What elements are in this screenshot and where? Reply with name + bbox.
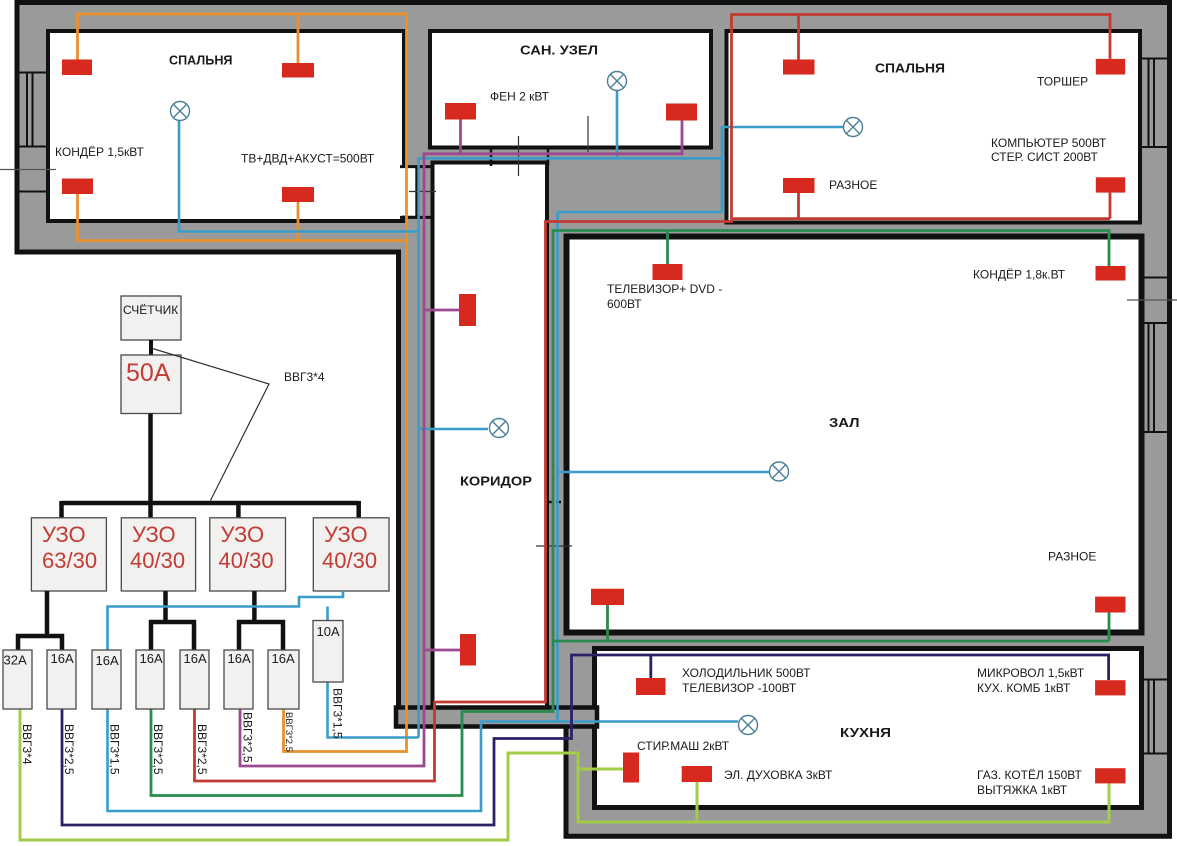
wire: dark-blue kitchen socket circuit bbox=[62, 655, 1109, 825]
svg-text:16А: 16А bbox=[51, 651, 74, 666]
svg-text:ТЕЛЕВИЗОР+ DVD -: ТЕЛЕВИЗОР+ DVD - bbox=[607, 282, 722, 296]
svg-text:КОНДЁР 1,8к.ВТ: КОНДЁР 1,8к.ВТ bbox=[973, 268, 1066, 282]
breaker 16А no.5 box bbox=[224, 650, 253, 709]
wire: bus drop to УЗО3 bbox=[236, 501, 241, 519]
breaker 16А no.4 box bbox=[180, 650, 209, 709]
svg-text:ЗАЛ: ЗАЛ bbox=[829, 415, 860, 430]
lamp: corridor ceiling light bbox=[490, 419, 509, 438]
svg-text:САН. УЗЕЛ: САН. УЗЕЛ bbox=[520, 43, 598, 58]
door: bedroom1-corridor opening bbox=[400, 165, 431, 219]
svg-text:РАЗНОЕ: РАЗНОЕ bbox=[1048, 550, 1096, 564]
outlet: bathroom right bbox=[666, 104, 697, 121]
dimension line: corridor right gap bbox=[536, 545, 572, 547]
svg-text:СТЕР. СИСТ 200ВТ: СТЕР. СИСТ 200ВТ bbox=[991, 150, 1098, 164]
wire: УЗО1 to breakers 32А/16А bbox=[18, 591, 62, 650]
svg-text:РАЗНОЕ: РАЗНОЕ bbox=[829, 178, 877, 192]
wire: purple bathroom+corridor socket circuit bbox=[240, 120, 682, 767]
dimension tick: bathroom bottom wall bbox=[518, 136, 520, 176]
outlet: kitchen ЭЛ.ДУХОВКА bbox=[682, 766, 712, 782]
outlet: bedroom1 bottom-left bbox=[62, 179, 93, 195]
outlet: hall РАЗНОЕ bottom-right bbox=[1095, 597, 1125, 613]
outlet: kitchen ХОЛОДИЛЬНИК bbox=[636, 678, 666, 695]
wall: corridor bottom chunk bbox=[396, 708, 597, 727]
outlet: kitchen СТИР.МАШ bbox=[623, 753, 639, 783]
svg-text:16А: 16А bbox=[228, 651, 251, 666]
svg-text:10А: 10А bbox=[317, 624, 340, 639]
svg-text:ТОРШЕР: ТОРШЕР bbox=[1037, 75, 1088, 89]
outlet: bedroom1 top-right bbox=[282, 63, 314, 78]
svg-text:ВЫТЯЖКА 1кВТ: ВЫТЯЖКА 1кВТ bbox=[977, 783, 1068, 797]
RCD УЗО 40/30 no.4 box bbox=[313, 518, 389, 591]
dimension tick: bathroom wall dash bbox=[490, 146, 493, 166]
wire: distribution bus bbox=[62, 501, 359, 506]
dimension tick: bathroom bottom wall 2 bbox=[587, 116, 589, 152]
outlet: bedroom2 РАЗНОЕ bbox=[783, 178, 815, 193]
breaker 32А box bbox=[3, 650, 32, 709]
outlet: kitchen ГАЗ.КОТЁЛ bbox=[1095, 768, 1125, 783]
room: bedroom2 interior bbox=[727, 31, 1141, 223]
room: bedroom1 interior bbox=[48, 31, 404, 221]
svg-text:32А: 32А bbox=[4, 653, 27, 668]
svg-text:КОРИДОР: КОРИДОР bbox=[460, 474, 532, 489]
meter СЧЁТЧИК box bbox=[121, 296, 181, 340]
lamp: hall ceiling light bbox=[770, 462, 789, 481]
lamp: bathroom ceiling light bbox=[608, 72, 627, 91]
breaker 50А box bbox=[121, 355, 181, 414]
svg-text:КУХ. КОМБ 1кВТ: КУХ. КОМБ 1кВТ bbox=[977, 681, 1071, 695]
outlet: corridor lower bbox=[460, 634, 476, 666]
svg-text:ТЕЛЕВИЗОР -100ВТ: ТЕЛЕВИЗОР -100ВТ bbox=[682, 681, 797, 695]
svg-text:ЭЛ. ДУХОВКА 3кВТ: ЭЛ. ДУХОВКА 3кВТ bbox=[724, 768, 833, 782]
RCD УЗО 40/30 no.2 box bbox=[121, 518, 195, 591]
outlet: bedroom2 bottom-right bbox=[1096, 177, 1125, 192]
wire: light-blue lighting circuit bbox=[108, 91, 844, 811]
window: left wall of bedroom1 bbox=[17, 73, 48, 192]
breaker 10А box bbox=[313, 621, 343, 683]
wire: orange bedroom1 socket circuit bbox=[78, 14, 407, 752]
svg-text:16А: 16А bbox=[96, 653, 119, 668]
svg-text:ВВГ3*4: ВВГ3*4 bbox=[20, 724, 34, 765]
outlet: bedroom2 top-left bbox=[783, 60, 815, 75]
room: corridor interior bbox=[433, 163, 548, 710]
dimension line: left of bedroom1 bbox=[0, 169, 56, 171]
svg-text:КОМПЬЮТЕР 500ВТ: КОМПЬЮТЕР 500ВТ bbox=[991, 136, 1107, 150]
outlet: bedroom1 КОНДЁР top-left bbox=[62, 60, 92, 76]
callout: ВВГ3*4 main cable bbox=[153, 349, 270, 501]
lamp: bedroom2 ceiling light bbox=[844, 118, 863, 137]
svg-text:ВВГ3*4: ВВГ3*4 bbox=[284, 370, 325, 384]
wire: bus drop to УЗО4 bbox=[356, 501, 361, 519]
outlet: kitchen МИКРОВОЛ bbox=[1095, 680, 1125, 695]
RCD УЗО 40/30 no.3 box bbox=[210, 518, 286, 591]
svg-text:ВВГ3*2,5: ВВГ3*2,5 bbox=[241, 712, 255, 763]
svg-text:50А: 50А bbox=[126, 359, 171, 387]
wire: main breaker to bus bbox=[148, 414, 153, 520]
window: right wall beside bedroom2 bbox=[1142, 59, 1169, 278]
dimension line: right wall beside hall bbox=[1127, 299, 1177, 301]
svg-text:УЗО: УЗО bbox=[132, 522, 176, 547]
wire: meter to main breaker bbox=[149, 340, 153, 356]
svg-text:ВВГ3*2,5: ВВГ3*2,5 bbox=[283, 712, 294, 752]
svg-text:40/30: 40/30 bbox=[219, 548, 274, 573]
svg-text:ВВГ3*2,5: ВВГ3*2,5 bbox=[195, 724, 209, 775]
svg-text:КОНДЁР 1,5кВТ: КОНДЁР 1,5кВТ bbox=[55, 145, 144, 159]
svg-text:УЗО: УЗО bbox=[324, 522, 368, 547]
svg-text:40/30: 40/30 bbox=[130, 548, 185, 573]
svg-text:СЧЁТЧИК: СЧЁТЧИК bbox=[123, 303, 178, 317]
svg-text:ТВ+ДВД+АКУСТ=500ВТ: ТВ+ДВД+АКУСТ=500ВТ bbox=[241, 152, 375, 166]
svg-text:ВВГ3*2,5: ВВГ3*2,5 bbox=[62, 724, 76, 775]
svg-text:ВВГ3*2,5: ВВГ3*2,5 bbox=[151, 724, 165, 775]
svg-text:ФЕН 2 кВТ: ФЕН 2 кВТ bbox=[490, 90, 550, 104]
outlet: bedroom1 ТВ bottom-right bbox=[282, 187, 314, 202]
svg-text:16А: 16А bbox=[272, 651, 295, 666]
svg-text:СПАЛЬНЯ: СПАЛЬНЯ bbox=[875, 61, 945, 76]
room: hall (ЗАЛ) interior bbox=[567, 237, 1142, 633]
svg-text:КУХНЯ: КУХНЯ bbox=[840, 725, 891, 740]
svg-text:ХОЛОДИЛЬНИК 500ВТ: ХОЛОДИЛЬНИК 500ВТ bbox=[682, 666, 811, 680]
outlet: bedroom2 ТОРШЕР bbox=[1096, 59, 1125, 75]
wire: lime stove/boiler circuit bbox=[20, 709, 1109, 840]
svg-text:УЗО: УЗО bbox=[42, 522, 86, 547]
svg-text:40/30: 40/30 bbox=[322, 548, 377, 573]
breaker 16А no.3 box bbox=[136, 650, 164, 709]
window: right wall beside hall bbox=[1142, 323, 1169, 432]
outlet: hall КОНДЁР 1,8 bbox=[1096, 266, 1126, 281]
svg-text:63/30: 63/30 bbox=[42, 548, 97, 573]
svg-text:16А: 16А bbox=[140, 651, 163, 666]
outlet: hall ТЕЛЕВИЗОР bbox=[653, 264, 683, 280]
outlet: corridor upper bbox=[459, 294, 476, 326]
svg-text:МИКРОВОЛ 1,5кВТ: МИКРОВОЛ 1,5кВТ bbox=[977, 666, 1085, 680]
wire: green hall socket circuit bbox=[151, 231, 1109, 796]
wire: УЗО3 to breakers bbox=[239, 591, 283, 650]
RCD УЗО 63/30 box bbox=[31, 518, 106, 591]
svg-text:ВВГ3*1,5: ВВГ3*1,5 bbox=[331, 688, 345, 739]
svg-text:СПАЛЬНЯ: СПАЛЬНЯ bbox=[169, 53, 233, 68]
outlet: bathroom ФЕН left bbox=[445, 103, 476, 120]
dimension tick: corridor left wall bbox=[409, 191, 436, 193]
room: kitchen interior bbox=[595, 649, 1142, 808]
svg-text:УЗО: УЗО bbox=[221, 522, 265, 547]
room: bathroom interior bbox=[430, 31, 711, 148]
svg-text:600ВТ: 600ВТ bbox=[607, 297, 642, 311]
wire: УЗО2 to breakers bbox=[151, 591, 194, 650]
svg-text:СТИР.МАШ 2кВТ: СТИР.МАШ 2кВТ bbox=[637, 739, 730, 753]
breaker 16А no.2 box bbox=[92, 650, 121, 709]
svg-text:16А: 16А bbox=[184, 651, 207, 666]
wire: red bedroom2 socket circuit bbox=[195, 15, 1111, 782]
breaker 16А no.1 box bbox=[47, 650, 76, 709]
wire: bus drop to УЗО1 bbox=[59, 501, 64, 519]
svg-text:ГАЗ. КОТЁЛ 150ВТ: ГАЗ. КОТЁЛ 150ВТ bbox=[977, 768, 1082, 782]
outlet: hall bottom-left bbox=[591, 589, 624, 605]
dimension tick: hall left wall bbox=[548, 501, 566, 504]
lamp: bedroom1 ceiling light bbox=[171, 102, 190, 121]
wire: УЗО4 to 16А and 10А (light-blue) bbox=[108, 591, 344, 650]
breaker 16А no.6 box bbox=[268, 650, 299, 709]
svg-text:ВВГ3*1,5: ВВГ3*1,5 bbox=[108, 724, 122, 775]
lamp: kitchen ceiling light bbox=[739, 716, 758, 735]
window: right wall beside kitchen bbox=[1142, 680, 1169, 754]
